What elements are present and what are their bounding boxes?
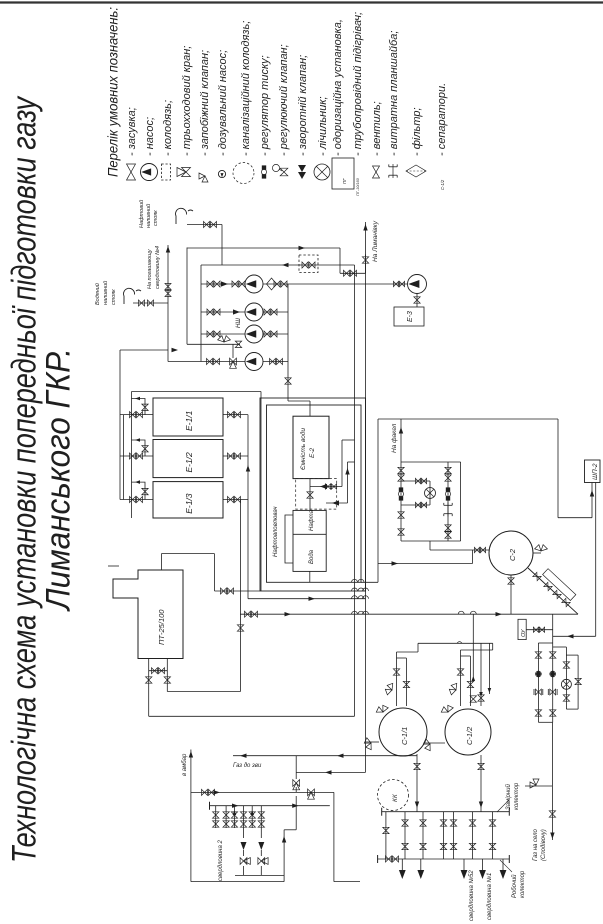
svg-text:Перелік умовних позначень:: Перелік умовних позначень:	[106, 7, 121, 177]
svg-text:КК: КК	[392, 793, 399, 802]
svg-text:стояк: стояк	[111, 289, 117, 305]
svg-text:- вентиль;: - вентиль;	[371, 101, 383, 156]
svg-text:Замірний: Замірний	[505, 784, 512, 810]
svg-text:Нафтовловлювач: Нафтовловлювач	[273, 507, 279, 557]
svg-text:ПГ: ПГ	[342, 178, 347, 184]
svg-text:- регулятор тиску;: - регулятор тиску;	[259, 55, 271, 156]
svg-text:На Лиманівку: На Лиманівку	[371, 220, 379, 262]
svg-text:свердловина 2: свердловина 2	[218, 840, 224, 881]
svg-text:- колодязь;: - колодязь;	[162, 100, 174, 156]
svg-text:наливний: наливний	[102, 281, 109, 305]
svg-text:С-2: С-2	[508, 548, 517, 561]
svg-text:- фільтр;: - фільтр;	[411, 107, 423, 156]
svg-text:НШ: НШ	[236, 318, 242, 328]
svg-text:На факел: На факел	[391, 423, 398, 453]
svg-text:Водяний: Водяний	[94, 283, 101, 305]
svg-text:- насос;: - насос;	[144, 117, 156, 156]
svg-text:в амбар: в амбар	[182, 753, 188, 776]
svg-text:- запобіжний клапан;: - запобіжний клапан;	[199, 50, 211, 156]
svg-text:наливний: наливний	[145, 204, 152, 228]
svg-text:ОУ: ОУ	[521, 629, 527, 637]
svg-text:ПТ-25/100: ПТ-25/100	[157, 609, 166, 645]
svg-text:- витратна планшайба;: - витратна планшайба;	[388, 31, 400, 156]
svg-text:С-1/2: С-1/2	[465, 726, 474, 745]
svg-text:колектор: колектор	[520, 870, 526, 898]
svg-text:- трубопровідний підігрівач;: - трубопровідний підігрівач;	[352, 12, 364, 156]
svg-text:Е-2: Е-2	[309, 448, 316, 459]
svg-text:ШП-2: ШП-2	[592, 463, 599, 480]
svg-text:Газ до зви: Газ до зви	[233, 763, 262, 769]
svg-text:- одоризаційна установка,: - одоризаційна установка,	[332, 19, 344, 156]
svg-text:свердловину №4: свердловину №4	[155, 246, 161, 289]
svg-text:С-1/1: С-1/1	[400, 727, 409, 745]
svg-text:- каналізаційний колодязь;: - каналізаційний колодязь;	[240, 21, 252, 156]
svg-text:Е-1/2: Е-1/2	[184, 452, 194, 473]
svg-text:стояк: стояк	[153, 210, 159, 226]
svg-text:- дозувальний насос;: - дозувальний насос;	[217, 50, 229, 156]
svg-text:Е-1/1: Е-1/1	[184, 410, 194, 431]
svg-text:колектор: колектор	[514, 782, 520, 810]
svg-text:свердловина №1: свердловина №1	[486, 873, 493, 920]
svg-text:Е-3: Е-3	[407, 311, 414, 322]
svg-text:ПГ-10/160: ПГ-10/160	[356, 177, 360, 196]
svg-text:Ємність води: Ємність води	[299, 428, 307, 470]
svg-text:Нафта: Нафта	[309, 509, 315, 531]
svg-text:С-1/2: С-1/2	[440, 179, 445, 190]
svg-text:На погашающу: На погашающу	[147, 248, 153, 289]
svg-text:Лиманського ГКР.: Лиманського ГКР.	[40, 348, 78, 612]
svg-text:Вода: Вода	[309, 549, 315, 564]
svg-text:- зворотній клапан;: - зворотній клапан;	[297, 55, 309, 156]
svg-text:свердловина №52: свердловина №52	[468, 870, 475, 921]
svg-text:- трьохходовий кран;: - трьохходовий кран;	[181, 46, 193, 156]
svg-text:Технологічна схема установки п: Технологічна схема установки попередньої…	[6, 95, 44, 863]
svg-text:- сепаратори.: - сепаратори.	[436, 83, 448, 156]
svg-text:Е-1/3: Е-1/3	[184, 493, 194, 514]
svg-text:(Сподівочу): (Сподівочу)	[541, 829, 547, 861]
svg-text:- лічильник;: - лічильник;	[317, 96, 329, 156]
svg-text:Газ на село: Газ на село	[533, 828, 539, 861]
svg-text:- регулюючий клапан;: - регулюючий клапан;	[278, 44, 290, 156]
svg-text:Робочий: Робочий	[511, 874, 518, 898]
svg-text:Нафтовий: Нафтовий	[138, 200, 145, 228]
svg-text:- засувка;: - засувка;	[126, 107, 138, 156]
